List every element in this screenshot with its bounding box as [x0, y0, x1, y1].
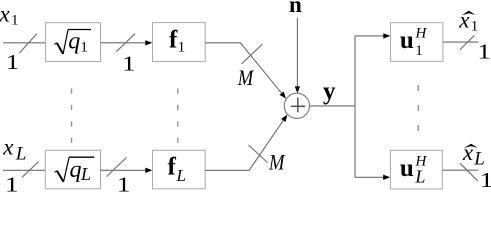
- diagonal wire f1 to sum: [240, 43, 282, 95]
- wire input x1: [3, 42, 46, 44]
- slash bus-width input x1: [19, 34, 36, 53]
- wire u1 out: [443, 41, 479, 43]
- svg-text:H: H: [415, 25, 428, 41]
- slash bus-width q1-f1: [116, 34, 135, 52]
- svg-text:n: n: [289, 0, 302, 17]
- block f1: [153, 23, 206, 62]
- svg-text:u: u: [400, 27, 414, 54]
- svg-text:x: x: [462, 140, 474, 165]
- arrowhead into uL: [383, 175, 390, 180]
- slash bus-width M (top): [242, 44, 263, 64]
- arrowhead diagonal f1 to sum: [280, 92, 287, 99]
- label x1: [0, 2, 19, 29]
- diagonal wire fL to sum: [249, 120, 284, 171]
- svg-text:1: 1: [11, 13, 19, 29]
- slash bus-width u1 out: [460, 35, 475, 50]
- svg-text:y: y: [323, 78, 336, 105]
- svg-text:H: H: [415, 153, 428, 169]
- svg-text:x: x: [2, 135, 14, 160]
- block u1H: [391, 23, 443, 62]
- wire branch to uL: [355, 176, 385, 178]
- block fL: [153, 150, 206, 189]
- arrowhead n to sum: [295, 86, 300, 93]
- dashed ellipsis line (u column): [417, 85, 419, 132]
- arrowhead into f1: [145, 40, 152, 45]
- arrowhead into fL: [145, 168, 152, 173]
- svg-text:L: L: [80, 164, 91, 184]
- svg-text:1: 1: [178, 39, 186, 55]
- svg-text:u: u: [400, 155, 414, 182]
- wire input xL: [3, 169, 45, 171]
- svg-text:1: 1: [122, 52, 136, 76]
- wire f1 out: [205, 42, 241, 44]
- wire branch vertical: [354, 36, 356, 177]
- svg-text:M: M: [268, 149, 286, 174]
- svg-text:1: 1: [81, 39, 88, 55]
- dashed ellipsis line (f column): [177, 88, 179, 143]
- label x-hat-L: [462, 140, 485, 170]
- label x-hat-1: [458, 8, 478, 35]
- slash bus-width M (bottom): [248, 145, 267, 163]
- svg-text:1: 1: [5, 173, 19, 196]
- arrowhead diagonal fL to sum: [281, 115, 287, 122]
- wire qL to fL: [101, 169, 147, 171]
- svg-text:1: 1: [480, 168, 491, 192]
- wire y out of sum: [310, 105, 356, 107]
- svg-text:1: 1: [471, 18, 479, 34]
- svg-text:q: q: [70, 157, 82, 183]
- svg-text:1: 1: [6, 50, 20, 74]
- svg-text:q: q: [68, 28, 80, 54]
- svg-text:1: 1: [477, 40, 491, 64]
- slash bus-width qL-fL: [107, 157, 127, 176]
- wire n to sum: [296, 18, 298, 87]
- wire branch to u1: [355, 35, 385, 37]
- wire fL out: [205, 169, 249, 171]
- summing junction: [284, 93, 309, 118]
- block uLH: [390, 150, 442, 189]
- dashed ellipsis line (sqrt column): [71, 88, 73, 143]
- svg-text:x: x: [0, 2, 11, 27]
- svg-text:1: 1: [415, 43, 423, 59]
- block sqrt(qL): [45, 150, 100, 189]
- wire q1 to f1: [101, 42, 147, 44]
- label xL: [2, 135, 26, 165]
- svg-text:f: f: [168, 153, 177, 180]
- svg-text:x: x: [458, 8, 470, 33]
- svg-text:1: 1: [117, 173, 131, 196]
- svg-text:M: M: [237, 65, 255, 90]
- wire uL out: [442, 169, 478, 171]
- block sqrt(q1): [46, 23, 101, 62]
- svg-text:L: L: [15, 143, 27, 164]
- arrowhead into u1: [383, 33, 390, 38]
- slash bus-width uL out: [460, 163, 478, 181]
- svg-text:L: L: [176, 166, 186, 185]
- slash bus-width input xL: [22, 162, 39, 178]
- svg-text:L: L: [473, 148, 485, 169]
